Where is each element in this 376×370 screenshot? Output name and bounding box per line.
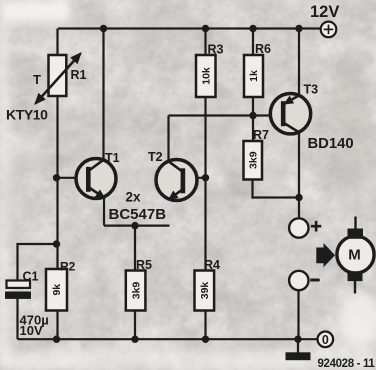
wire left column R1/R2 <box>56 29 58 340</box>
svg-text:39k: 39k <box>199 282 211 300</box>
ground symbol <box>286 352 311 360</box>
svg-text:BD140: BD140 <box>308 136 354 152</box>
wire T1 emitter drop <box>103 197 105 226</box>
node T2 base <box>202 174 209 181</box>
terminal 0 (ground output) <box>318 332 334 348</box>
node C1 branch <box>53 240 60 247</box>
svg-text:R1: R1 <box>71 68 87 82</box>
svg-text:KTY10: KTY10 <box>6 107 48 123</box>
motor arrow <box>316 243 335 267</box>
wire top supply rail <box>58 27 321 29</box>
resistor R2 9k <box>46 260 76 311</box>
svg-text:T: T <box>33 72 41 87</box>
transistor T2 BC547B (mirrored) <box>148 150 197 201</box>
resistor R5 3k9 <box>126 258 152 311</box>
resistor R3 10k <box>196 43 224 98</box>
svg-text:R2: R2 <box>60 260 76 274</box>
svg-text:R3: R3 <box>208 43 224 57</box>
resistor R6 1k <box>244 42 271 97</box>
wire emitter rail T1-T2 <box>104 225 170 227</box>
node ground/output <box>294 336 301 343</box>
svg-text:BC547B: BC547B <box>109 206 167 223</box>
svg-text:T3: T3 <box>304 83 319 97</box>
svg-text:10k: 10k <box>200 67 212 85</box>
wire T2 base <box>183 177 206 179</box>
wire ground rail <box>18 338 318 340</box>
node rail/R6 <box>249 25 256 32</box>
svg-text:T2: T2 <box>148 150 163 164</box>
wire base line to T3 <box>169 114 271 116</box>
node rail/R3 <box>202 25 209 32</box>
wire minus terminal to ground <box>297 290 299 339</box>
wire C1 branch <box>18 244 57 281</box>
node R6/R7/T3 base <box>249 112 256 119</box>
svg-text:R7: R7 <box>253 128 269 142</box>
svg-text:C1: C1 <box>23 270 39 284</box>
resistor R7 3k9 <box>244 128 270 180</box>
svg-text:M: M <box>348 247 361 264</box>
node ground/R4 <box>202 336 209 343</box>
svg-text:R4: R4 <box>204 258 220 272</box>
wire ground stub <box>297 339 299 352</box>
svg-text:0: 0 <box>322 333 329 347</box>
wire C1 lower lead <box>16 299 18 340</box>
wire R7 bottom to collector node <box>253 180 300 198</box>
node R7/T3 collector <box>295 194 302 201</box>
svg-text:1k: 1k <box>248 70 260 82</box>
svg-text:R5: R5 <box>136 258 152 272</box>
wire T3 collector drop <box>298 132 300 218</box>
node rail/T1 <box>100 25 107 32</box>
wire T3 emitter riser <box>298 29 300 96</box>
node ground/R2 <box>53 336 60 343</box>
svg-text:10V: 10V <box>20 323 43 338</box>
resistor R4 39k <box>195 258 221 311</box>
terminal minus output <box>289 271 320 290</box>
node rail/T3 emitter <box>295 25 302 32</box>
svg-text:9k: 9k <box>51 284 63 296</box>
wire T1 collector riser <box>102 29 104 161</box>
wire R3/R4 column <box>204 29 206 339</box>
node emitter/R5 <box>131 222 138 229</box>
svg-text:T1: T1 <box>105 151 120 165</box>
motor M <box>337 217 374 294</box>
label 2x BC547B <box>109 190 167 224</box>
transistor T3 BD140 (PNP) <box>270 83 353 153</box>
wire T1 base <box>57 177 89 179</box>
svg-text:3k9: 3k9 <box>130 282 142 300</box>
terminal 12V <box>310 3 339 37</box>
resistor R1 (KTY10 sensor) <box>6 54 87 123</box>
wire R5 column <box>134 226 136 339</box>
wire T2 collector riser <box>167 116 169 162</box>
capacitor C1 470u electrolytic <box>5 270 49 339</box>
transistor T1 BC547B <box>76 151 120 199</box>
svg-text:924028 - 11: 924028 - 11 <box>318 358 376 370</box>
svg-text:R6: R6 <box>255 42 271 56</box>
terminal plus output <box>289 218 321 237</box>
svg-text:2x: 2x <box>126 190 142 205</box>
node ground/R5 <box>131 336 138 343</box>
svg-text:3k9: 3k9 <box>247 151 259 169</box>
svg-text:12V: 12V <box>310 3 339 21</box>
node T1 base <box>53 174 60 181</box>
wire R6/R7 column <box>252 29 254 142</box>
